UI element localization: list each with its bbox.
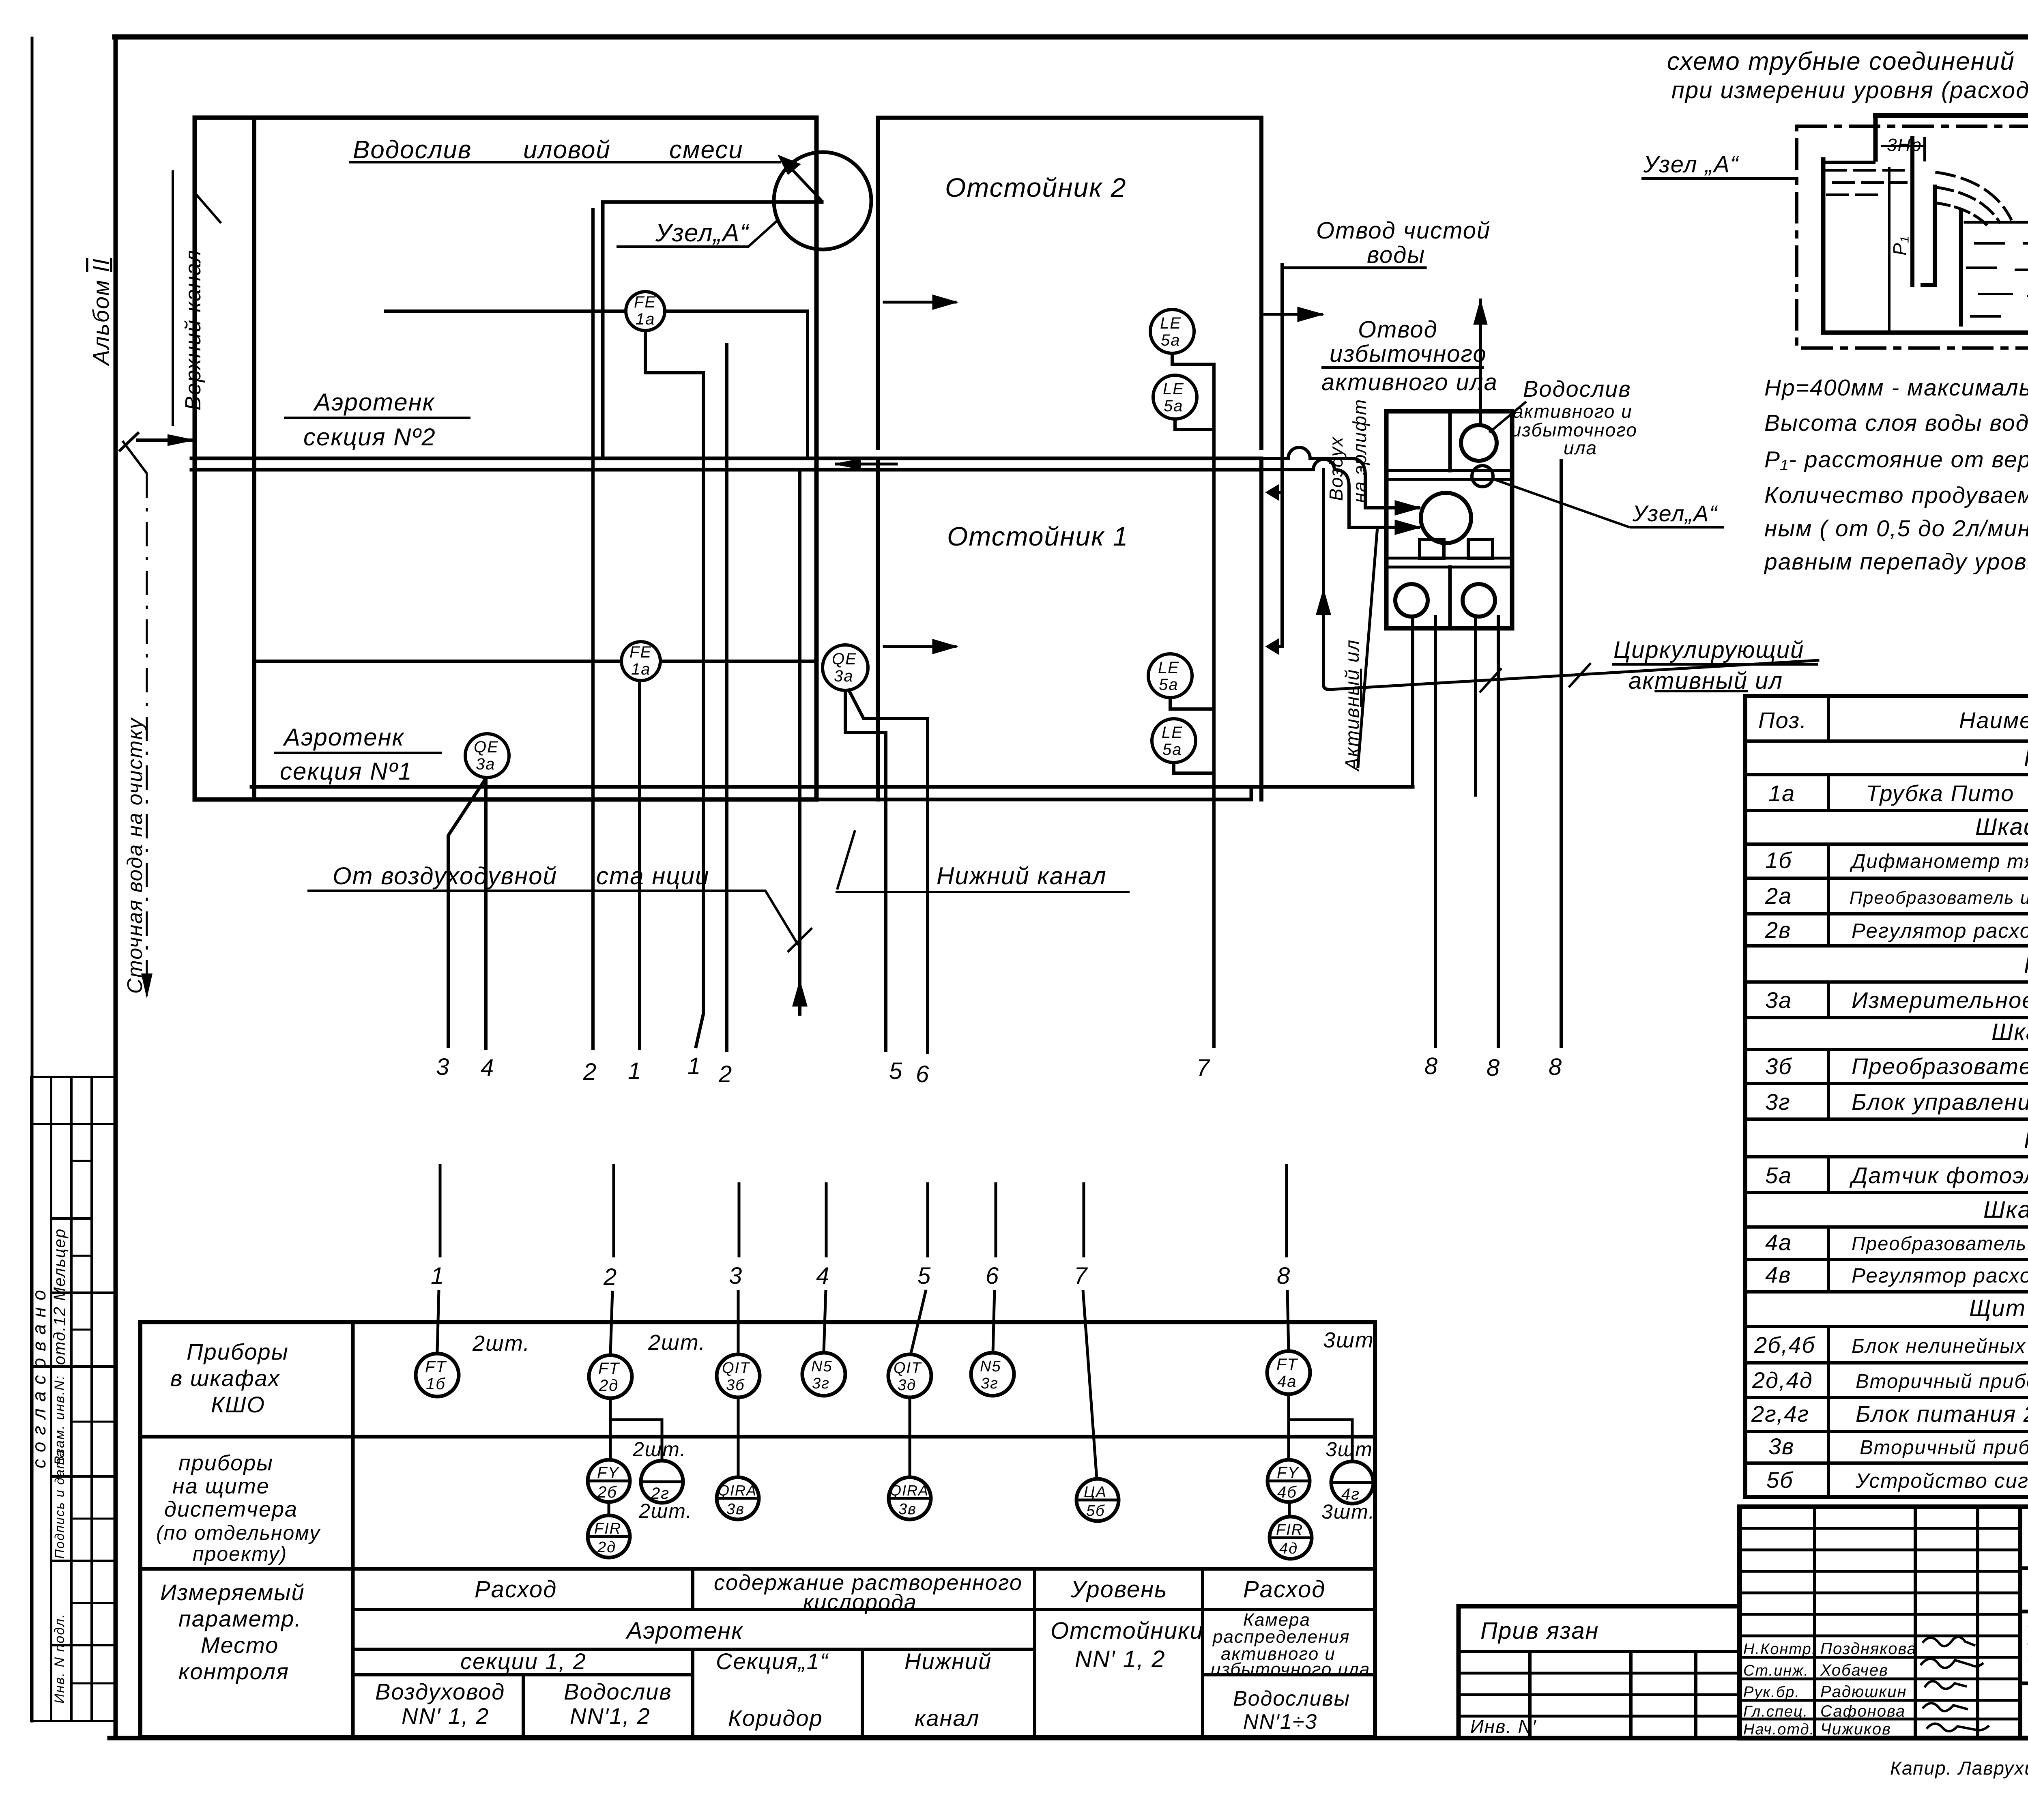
chamber band line 1 bbox=[1386, 471, 1512, 479]
svg-text:1а: 1а bbox=[636, 310, 655, 328]
instrument FE 1a lower bbox=[621, 642, 660, 681]
svg-text:1а: 1а bbox=[631, 660, 651, 678]
svg-text:NN′1÷3: NN′1÷3 bbox=[1243, 1710, 1317, 1734]
matrix column number 7 bbox=[1083, 1182, 1085, 1257]
border frame bottom bbox=[110, 1736, 2028, 1740]
wire 8a from chamber bbox=[1434, 617, 1437, 1046]
clean water arrow bbox=[1263, 313, 1321, 316]
svg-text:8: 8 bbox=[1277, 1263, 1291, 1289]
node A detail circle bbox=[774, 152, 871, 249]
svg-text:Преобразователь измерительный: Преобразователь измерительный Сапфир22ДГ bbox=[1852, 1233, 2028, 1254]
left margin stamp grid bbox=[30, 1077, 32, 1721]
svg-text:при измерении уровня (расход: при измерении уровня (расходо) жидкости bbox=[1671, 77, 2028, 103]
row line 2v bbox=[1745, 944, 2028, 948]
bubble FT 4a bbox=[1267, 1351, 1310, 1394]
bubble 2g bbox=[641, 1461, 683, 1503]
weir channel section 1 bbox=[725, 563, 728, 785]
water level incoming dashes bbox=[1825, 170, 1910, 195]
svg-text:Преобразователь измерительный: Преобразователь измерительный Сапфир-22Д… bbox=[1850, 888, 2028, 908]
svg-text:Поз.: Поз. bbox=[1758, 707, 1807, 733]
svg-text:Шкафы 4А,5А: Шкафы 4А,5А bbox=[1991, 1019, 2028, 1045]
instrument LE 5a settler2 bottom bbox=[1153, 375, 1197, 419]
svg-text:Отвод: Отвод bbox=[1358, 316, 1438, 343]
svg-text:FT: FT bbox=[598, 1360, 620, 1377]
svg-text:2: 2 bbox=[603, 1264, 617, 1290]
matrix row line 2 bbox=[140, 1567, 1375, 1571]
tank bottom bbox=[1823, 331, 2028, 335]
svg-text:ила: ила bbox=[1564, 437, 1597, 458]
svg-text:Инв. N подл.: Инв. N подл. bbox=[52, 1613, 67, 1704]
bubble QIT 3b bbox=[717, 1354, 760, 1397]
row line shkafy4A bbox=[1745, 1048, 2028, 1051]
svg-text:LE: LE bbox=[1160, 314, 1182, 332]
row line 3b bbox=[1745, 1082, 2028, 1085]
svg-text:Измеряемый: Измеряемый bbox=[160, 1579, 305, 1605]
bubble QIRA 3v second bbox=[889, 1477, 931, 1519]
svg-text:смеси: смеси bbox=[669, 136, 743, 164]
svg-text:2б,4б: 2б,4б bbox=[1754, 1332, 1815, 1358]
chamber bottom circle left bbox=[1395, 584, 1428, 617]
svg-text:LE: LE bbox=[1162, 724, 1183, 741]
svg-text:От воздуходувной: От воздуходувной bbox=[333, 862, 557, 890]
weir inner pool wall bbox=[1959, 211, 1963, 324]
bubble FT 1b bbox=[416, 1354, 459, 1397]
instrument LE 5a settler1 top bbox=[1148, 654, 1192, 698]
chamber node A circle bbox=[1472, 466, 1493, 487]
svg-text:Сафонова: Сафонова bbox=[1820, 1702, 1906, 1720]
clean water outlet pipe bbox=[1280, 265, 1284, 647]
svg-text:3в: 3в bbox=[898, 1501, 917, 1518]
svg-text:2а: 2а bbox=[1765, 883, 1792, 909]
svg-text:3шт.: 3шт. bbox=[1326, 1438, 1379, 1461]
svg-text:5а: 5а bbox=[1161, 331, 1181, 349]
svg-text:NN′ 1, 2: NN′ 1, 2 bbox=[402, 1703, 489, 1729]
row line 2d4d bbox=[1745, 1396, 2028, 1399]
chamber top circle bbox=[1461, 425, 1497, 461]
attach columns bbox=[1528, 1652, 1532, 1738]
QE 3a settler tails / wires 5 and 6 bbox=[845, 690, 886, 1051]
svg-text:QIT: QIT bbox=[894, 1360, 922, 1377]
row line shkafy1A1 bbox=[1745, 842, 2028, 846]
paper edge line left bbox=[31, 38, 34, 1721]
svg-text:Отстойник 1: Отстойник 1 bbox=[947, 521, 1128, 551]
svg-text:3а: 3а bbox=[1765, 987, 1792, 1013]
wire 8c node A line bbox=[1560, 460, 1563, 1046]
svg-text:Коридор: Коридор bbox=[728, 1705, 823, 1731]
svg-text:Водосливы: Водосливы bbox=[1233, 1687, 1350, 1710]
bubble ЦА 5b bbox=[1076, 1479, 1119, 1521]
svg-text:Узел„А“: Узел„А“ bbox=[1632, 501, 1718, 526]
signature scribbles bbox=[1923, 1637, 1975, 1646]
wire 8b from chamber bbox=[1497, 617, 1500, 1046]
bubble 4g bbox=[1331, 1461, 1373, 1504]
svg-text:3а: 3а bbox=[834, 667, 854, 685]
inlet compartment top bbox=[1823, 161, 1874, 164]
row line po mestu 2 bbox=[1745, 980, 2028, 984]
airlift air pipe bbox=[1323, 470, 1330, 690]
svg-text:LE: LE bbox=[1158, 659, 1179, 677]
attach block outer bbox=[1459, 1606, 1740, 1738]
svg-text:Отвод чистой: Отвод чистой bbox=[1316, 217, 1491, 244]
lower title divider bbox=[2020, 1682, 2028, 1685]
svg-text:4а: 4а bbox=[1765, 1229, 1792, 1255]
P1 dimension line bbox=[1888, 168, 1891, 332]
svg-text:Водослив: Водослив bbox=[1523, 376, 1631, 402]
pool dashes bbox=[1967, 243, 2028, 316]
row line 5a bbox=[1745, 1191, 2028, 1194]
svg-text:Альбом II: Альбом II bbox=[88, 258, 114, 366]
svg-text:6: 6 bbox=[986, 1263, 999, 1289]
svg-text:8: 8 bbox=[1487, 1055, 1500, 1081]
svg-text:Нижний канал: Нижний канал bbox=[937, 862, 1107, 890]
svg-text:5а: 5а bbox=[1765, 1162, 1792, 1188]
svg-text:1а: 1а bbox=[1768, 780, 1795, 806]
row line po mestu 1 bbox=[1745, 773, 2028, 776]
svg-text:избыточного ила: избыточного ила bbox=[1211, 1659, 1370, 1679]
matrix col divider uroven-rashod bbox=[1201, 1569, 1204, 1737]
svg-text:4д: 4д bbox=[1279, 1540, 1298, 1557]
matrix column number 5 bbox=[926, 1182, 929, 1257]
svg-text:4б: 4б bbox=[1277, 1483, 1297, 1501]
title block outer bbox=[1740, 1507, 2028, 1738]
svg-text:избыточного: избыточного bbox=[1330, 341, 1487, 367]
section divider pipe line 2 bbox=[191, 468, 1261, 472]
wire FT2d to FY2b bbox=[609, 1398, 612, 1460]
svg-text:секция Nº1: секция Nº1 bbox=[280, 758, 412, 785]
svg-text:FIR: FIR bbox=[1276, 1521, 1303, 1539]
row line 1a bbox=[1745, 809, 2028, 812]
svg-text:8: 8 bbox=[1549, 1054, 1562, 1080]
svg-text:Водослив: Водослив bbox=[353, 136, 472, 164]
svg-text:Чижиков: Чижиков bbox=[1820, 1720, 1891, 1738]
svg-text:5а: 5а bbox=[1159, 676, 1179, 694]
overflow curve dashes bbox=[1937, 172, 2011, 219]
bubble FIR 2d bbox=[588, 1515, 630, 1558]
svg-text:Отстойники: Отстойники bbox=[1051, 1618, 1204, 1644]
LE pair settler1 bracket bbox=[1170, 698, 1213, 709]
measuring tank dash-dot box bbox=[1797, 126, 2028, 348]
chamber inflow arrow upper bbox=[1365, 506, 1418, 509]
signature grid verticals bbox=[1813, 1507, 1816, 1738]
svg-text:Узел„А“: Узел„А“ bbox=[655, 219, 750, 247]
svg-text:Место: Место bbox=[201, 1632, 279, 1658]
svg-text:2шт.: 2шт. bbox=[472, 1331, 530, 1356]
svg-text:2в: 2в bbox=[1765, 917, 1791, 943]
chamber big circle bbox=[1421, 493, 1471, 543]
matrix col divider sekciya-nizhnij bbox=[861, 1649, 864, 1737]
svg-text:активного ила: активного ила bbox=[1321, 369, 1498, 395]
svg-text:4: 4 bbox=[481, 1055, 494, 1081]
excess sludge up arrow bbox=[1479, 300, 1482, 425]
sludge return pipe line 2 bbox=[195, 787, 1413, 799]
svg-text:схемо трубные соединений: схемо трубные соединений bbox=[1667, 47, 2015, 75]
arrow into settler 1 bbox=[884, 645, 955, 648]
svg-text:Аэротенк: Аэротенк bbox=[313, 389, 435, 416]
bubble QIRA 3v bbox=[717, 1477, 759, 1519]
svg-text:Дифманометр тягонапорамер ДТ: Дифманометр тягонапорамер ДТНМП-100 bbox=[1850, 851, 2028, 872]
svg-text:Измерительное устройство: Измерительное устройство bbox=[1852, 987, 2028, 1013]
svg-text:ЦА: ЦА bbox=[1084, 1484, 1107, 1501]
LE pair settler2 bracket bbox=[1172, 354, 1214, 364]
svg-text:Активный ил: Активный ил bbox=[1342, 639, 1363, 772]
bubble FY 4b bbox=[1267, 1460, 1310, 1502]
svg-text:2шт.: 2шт. bbox=[648, 1330, 706, 1355]
svg-text:Расход: Расход bbox=[1243, 1576, 1326, 1603]
bubble FT 2d bbox=[589, 1355, 632, 1398]
wire FY4b to FIR4d bbox=[1288, 1502, 1291, 1517]
matrix header row line bbox=[353, 1608, 1375, 1611]
column Поз divider bbox=[1827, 696, 1830, 1497]
svg-text:активного и: активного и bbox=[1513, 401, 1633, 422]
matrix column number 8 bbox=[1285, 1164, 1288, 1257]
wire FY2b to FIR2d bbox=[608, 1502, 610, 1515]
FE 1a instrument wire upper bbox=[385, 309, 626, 313]
svg-text:3г: 3г bbox=[1765, 1089, 1791, 1115]
svg-text:3в: 3в bbox=[1768, 1433, 1794, 1459]
bubble N5 3g second bbox=[971, 1353, 1014, 1396]
row line 3v bbox=[1745, 1461, 2028, 1465]
wire QIT3d to QIRA3v second bbox=[909, 1397, 911, 1477]
bubble QIT 3d bbox=[888, 1354, 931, 1397]
svg-text:на щите: на щите bbox=[172, 1474, 270, 1498]
svg-text:QIT: QIT bbox=[722, 1360, 750, 1377]
impulse pipe up bbox=[1873, 116, 1878, 159]
FE 1a tail upper bbox=[645, 331, 703, 1046]
svg-text:NN′1, 2: NN′1, 2 bbox=[570, 1703, 651, 1729]
matrix row line 1 bbox=[140, 1435, 1375, 1439]
svg-text:1: 1 bbox=[628, 1058, 642, 1084]
wire 2 left bbox=[591, 210, 595, 1049]
svg-text:2: 2 bbox=[583, 1059, 597, 1085]
row line 1b bbox=[1745, 877, 2028, 880]
chamber band line 2 bbox=[1386, 558, 1512, 567]
svg-text:равным перепаду уровня и: равным перепаду уровня иловой смеси на в… bbox=[1764, 549, 2028, 575]
svg-text:КШО: КШО bbox=[211, 1392, 265, 1417]
svg-text:FY: FY bbox=[1277, 1464, 1300, 1482]
matrix column number 4 bbox=[825, 1182, 828, 1257]
matrix col divider rashod-soderzhanie bbox=[691, 1569, 694, 1737]
svg-text:1б: 1б bbox=[1765, 847, 1792, 873]
svg-text:Узел „А“: Узел „А“ bbox=[1643, 151, 1739, 178]
svg-text:3шт.: 3шт. bbox=[1323, 1328, 1381, 1352]
svg-text:Наименование: Наименование bbox=[1959, 707, 2028, 733]
svg-text:параметр.: параметр. bbox=[178, 1606, 302, 1631]
matrix column number 2 bbox=[612, 1164, 615, 1257]
tank left wall bbox=[1821, 159, 1826, 333]
svg-text:QE: QE bbox=[474, 738, 499, 756]
inlet arrowhead bbox=[120, 433, 138, 450]
svg-text:3шт.: 3шт. bbox=[1321, 1500, 1375, 1523]
svg-text:Блок управления: Блок управления bbox=[1852, 1089, 2028, 1115]
row line 2b4b bbox=[1745, 1361, 2028, 1364]
svg-text:Хобачев: Хобачев bbox=[1820, 1661, 1888, 1679]
border frame left bbox=[114, 37, 118, 1738]
signature grid rows upper bbox=[1740, 1527, 2020, 1530]
row line 4a bbox=[1745, 1258, 2028, 1261]
title cells divider bbox=[2020, 1610, 2028, 1614]
row line shit bbox=[1745, 1325, 2028, 1328]
svg-text:кислорода: кислорода bbox=[803, 1590, 917, 1614]
svg-text:5а: 5а bbox=[1164, 397, 1184, 415]
settler separation wall bbox=[878, 460, 1261, 799]
svg-text:Шкафы 1А1 , 2А1: Шкафы 1А1 , 2А1 bbox=[1975, 814, 2028, 840]
svg-text:Водослив: Водослив bbox=[564, 1679, 672, 1704]
svg-text:7: 7 bbox=[1074, 1263, 1088, 1289]
svg-text:Преобразователь: Преобразователь bbox=[1852, 1053, 2028, 1079]
svg-text:Радюшкин: Радюшкин bbox=[1820, 1683, 1907, 1701]
svg-text:на эрлифт: на эрлифт bbox=[1349, 399, 1370, 503]
row line header bbox=[1745, 739, 2028, 743]
svg-text:канал: канал bbox=[915, 1705, 980, 1731]
svg-text:8: 8 bbox=[1424, 1053, 1438, 1079]
svg-text:диспетчера: диспетчера bbox=[164, 1497, 298, 1521]
svg-text:Уровень: Уровень bbox=[1070, 1576, 1168, 1603]
FE 1a instrument wire lower bbox=[256, 660, 621, 663]
chamber bottom circle right bbox=[1463, 584, 1495, 617]
instrument QE 3a section1 bbox=[465, 734, 509, 778]
wire 2 right bbox=[725, 345, 728, 1051]
svg-text:ста нции: ста нции bbox=[596, 862, 709, 890]
air line from blower station bbox=[798, 470, 801, 1014]
svg-text:контроля: контроля bbox=[178, 1659, 289, 1684]
row line 2a bbox=[1745, 912, 2028, 915]
svg-text:2шт.: 2шт. bbox=[632, 1438, 686, 1461]
instrument LE 5a settler1 bottom bbox=[1152, 719, 1196, 763]
svg-text:3а: 3а bbox=[476, 755, 496, 773]
svg-text:Р₁- расстояние от верха до н: Р₁- расстояние от верха до низа водослив… bbox=[1764, 447, 2028, 473]
FE 1a tail lower / wire 1 bbox=[638, 681, 641, 1049]
settler right edge continuation bbox=[878, 116, 1261, 120]
svg-text:3Нр: 3Нр bbox=[1887, 135, 1922, 155]
svg-text:FE: FE bbox=[629, 643, 652, 661]
svg-text:1: 1 bbox=[431, 1263, 445, 1289]
circle diagonal pointer bbox=[785, 162, 821, 200]
svg-text:приборы: приборы bbox=[178, 1451, 273, 1475]
svg-text:FT: FT bbox=[1276, 1356, 1298, 1373]
svg-text:Аэротенк: Аэротенк bbox=[283, 724, 405, 751]
svg-text:FY: FY bbox=[597, 1464, 620, 1482]
svg-text:Высота слоя воды водослив: Высота слоя воды водослива. bbox=[1764, 410, 2028, 436]
instrument FE 1a upper bbox=[626, 292, 665, 331]
QE 3a section1 tails / wires 3 and 4 bbox=[448, 778, 486, 1046]
matrix label column divider bbox=[351, 1322, 355, 1737]
divider arrow left bbox=[836, 460, 860, 468]
wire FT4a elbow to 4g bbox=[1289, 1403, 1352, 1461]
chamber gate rects bbox=[1420, 539, 1444, 558]
svg-text:3в: 3в bbox=[726, 1501, 745, 1518]
svg-text:Блок питания 22БП-36: Блок питания 22БП-36 bbox=[1856, 1401, 2028, 1427]
svg-text:Нижний: Нижний bbox=[904, 1648, 992, 1674]
svg-text:1: 1 bbox=[687, 1053, 701, 1079]
bubble FIR 4d bbox=[1270, 1517, 1312, 1559]
svg-text:Вторичный прибор расходомера: Вторичный прибор расходомера РП160-08 bbox=[1856, 1371, 2028, 1392]
chamber left pipe down bbox=[1411, 617, 1414, 787]
dim line 3Hp bbox=[1882, 145, 1925, 147]
section divider pipe line 1 bbox=[191, 457, 1261, 460]
svg-text:3: 3 bbox=[436, 1054, 450, 1080]
svg-text:Нач.отд.: Нач.отд. bbox=[1743, 1721, 1815, 1738]
wire FT4a to FY4b bbox=[1287, 1394, 1290, 1460]
svg-text:2: 2 bbox=[718, 1061, 733, 1087]
svg-text:3: 3 bbox=[729, 1263, 743, 1289]
chamber bottom divider bbox=[1448, 567, 1452, 628]
svg-text:Инв. N′: Инв. N′ bbox=[1470, 1716, 1537, 1737]
svg-text:(по отдельному: (по отдельному bbox=[156, 1521, 321, 1544]
bubble N5 3g bbox=[802, 1353, 845, 1396]
svg-text:иловой: иловой bbox=[523, 136, 611, 164]
matrix col divider soderzhanie-uroven bbox=[1033, 1569, 1036, 1737]
svg-text:3б: 3б bbox=[1765, 1053, 1792, 1079]
svg-text:По месту: По месту bbox=[2024, 952, 2028, 978]
svg-text:в шкафах: в шкафах bbox=[170, 1365, 280, 1391]
svg-text:активный ил: активный ил bbox=[1628, 668, 1783, 694]
arrow into settler 2 bbox=[884, 301, 955, 304]
svg-text:LE: LE bbox=[1163, 380, 1184, 398]
svg-text:Шкафы 6А,7А: Шкафы 6А,7А bbox=[1983, 1197, 2028, 1223]
svg-text:N5: N5 bbox=[980, 1358, 1001, 1375]
svg-text:По месту: По месту bbox=[2024, 745, 2028, 771]
instrument LE 5a settler2 top bbox=[1150, 309, 1194, 353]
svg-text:4а: 4а bbox=[1277, 1373, 1297, 1390]
attach rows bbox=[1459, 1672, 1740, 1675]
svg-text:2д,4д: 2д,4д bbox=[1752, 1367, 1813, 1393]
svg-text:отд.12 Мельцер: отд.12 Мельцер bbox=[51, 1228, 69, 1365]
svg-text:3г: 3г bbox=[981, 1375, 999, 1392]
circulating sludge guide line bbox=[1330, 660, 1818, 690]
svg-text:Н.Контр.: Н.Контр. bbox=[1743, 1641, 1817, 1658]
weir wall double bbox=[1910, 138, 1914, 285]
border frame top bbox=[115, 34, 2028, 40]
svg-text:Устройство сигнализирующее: Устройство сигнализирующее су-102 bbox=[1855, 1469, 2028, 1492]
svg-text:1б: 1б bbox=[426, 1375, 446, 1393]
row line 4v bbox=[1745, 1290, 2028, 1294]
svg-text:3д: 3д bbox=[898, 1377, 916, 1394]
svg-text:5а: 5а bbox=[1162, 741, 1182, 759]
svg-text:Регулятор расходо воздуха: Регулятор расходо воздуха РРВ-1 bbox=[1852, 919, 2028, 942]
wire FT2d elbow to 2g bbox=[610, 1398, 662, 1461]
chamber right pipe down bbox=[1474, 617, 1477, 795]
matrix column number 1 bbox=[439, 1164, 442, 1257]
wire QIT3b to QIRA3v bbox=[737, 1397, 740, 1477]
sludge return pipe line 1 bbox=[251, 785, 1251, 789]
clean water pipe flow arrows bbox=[1270, 492, 1282, 647]
svg-text:2г,4г: 2г,4г bbox=[1751, 1401, 1809, 1427]
svg-text:4в: 4в bbox=[1765, 1262, 1791, 1287]
row line 2g4g bbox=[1745, 1430, 2028, 1433]
svg-text:Подпись и дата: Подпись и дата bbox=[52, 1449, 67, 1559]
pipe from settlers to chamber upper bbox=[1261, 447, 1365, 508]
svg-text:Трубка Пито: Трубка Пито bbox=[1866, 780, 2014, 806]
svg-text:Датчик фотоэлектрический: Датчик фотоэлектрический bbox=[1849, 1162, 2028, 1188]
row line 3a bbox=[1745, 1016, 2028, 1019]
svg-text:ным ( от 0,5 до 2л/мин.), дав: ным ( от 0,5 до 2л/мин.), давление возду… bbox=[1764, 516, 2028, 541]
svg-text:3г: 3г bbox=[812, 1375, 830, 1392]
svg-text:Щит диспетчера: Щит диспетчера bbox=[1969, 1295, 2028, 1321]
impulse line to 1-01 bbox=[1875, 113, 2028, 118]
svg-text:секции 1, 2: секции 1, 2 bbox=[460, 1648, 586, 1674]
svg-text:Расход: Расход bbox=[475, 1576, 557, 1603]
svg-text:секция Nº2: секция Nº2 bbox=[303, 423, 436, 451]
svg-text:3б: 3б bbox=[726, 1377, 745, 1394]
chamber rectangle bbox=[1386, 411, 1512, 628]
svg-text:2д: 2д bbox=[599, 1377, 619, 1395]
svg-text:2шт.: 2шт. bbox=[638, 1500, 692, 1522]
svg-text:Воздуховод: Воздуховод bbox=[375, 1679, 505, 1704]
svg-text:Количество продуваемого возд: Количество продуваемого воздуха устанавл… bbox=[1764, 482, 2028, 508]
upper channel inlet line with arrow bbox=[138, 438, 191, 442]
svg-text:6: 6 bbox=[916, 1061, 930, 1087]
row line shkafy6A bbox=[1745, 1225, 2028, 1229]
